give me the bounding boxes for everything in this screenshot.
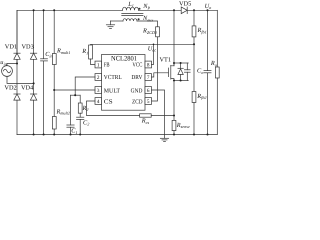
node rail Rmult — [53, 133, 55, 135]
node Rfb1 top — [193, 9, 195, 11]
wire aux right to RZCD1 — [137, 21, 158, 27]
svg-text:uin: uin — [0, 59, 6, 66]
svg-text:C2: C2 — [83, 119, 89, 126]
pin 1 box — [95, 61, 102, 68]
VT1 drain bar — [174, 62, 188, 64]
VT1 source bar — [174, 80, 188, 82]
diode VD4 — [30, 94, 36, 100]
pin 8 box — [145, 61, 152, 68]
diode VD2 — [14, 94, 20, 100]
svg-text:L1: L1 — [127, 1, 134, 8]
phase dot primary — [139, 8, 141, 10]
wire feedback Ucc rail — [91, 43, 195, 45]
resistor Rfb1 — [192, 10, 196, 44]
svg-text:CS: CS — [104, 98, 113, 105]
node top VD3 — [33, 9, 35, 11]
svg-text:Rfb1: Rfb1 — [197, 27, 207, 34]
pin 6 box — [145, 87, 152, 94]
ground GND pin — [160, 138, 168, 141]
svg-text:5: 5 — [147, 99, 150, 105]
svg-text:Rfb2: Rfb2 — [196, 93, 206, 100]
node fb divider — [193, 43, 195, 45]
body diode of VT1 — [178, 63, 183, 81]
wire CS pin4 — [87, 101, 140, 116]
resistor Rmult1 — [52, 54, 56, 65]
inductor L1 primary winding Np — [123, 7, 139, 10]
resistor RZCD1 — [156, 27, 160, 37]
svg-text:VT1: VT1 — [160, 56, 172, 63]
phase dot aux — [138, 18, 140, 20]
svg-text:Rmult1: Rmult1 — [56, 48, 70, 55]
ground aux — [106, 21, 114, 29]
wire top rail mid — [139, 9, 182, 11]
parasitic capacitor of VT1 — [184, 63, 190, 81]
wire GND pin6 — [152, 90, 165, 138]
wire MULT pin3 — [54, 89, 95, 91]
node rail C1 — [69, 133, 71, 135]
node rail Rfb2 — [193, 133, 195, 135]
node rail Rsense — [173, 133, 175, 135]
wire ZCD riser — [152, 37, 158, 101]
svg-text:VD3: VD3 — [22, 44, 34, 51]
resistor R2 — [78, 95, 82, 113]
wire Rcs to sense node — [151, 115, 174, 117]
node source bar left — [173, 79, 175, 81]
svg-text:VD4: VD4 — [21, 84, 34, 91]
svg-text:8: 8 — [147, 62, 150, 68]
wire top rail left — [17, 10, 123, 63]
capacitor Co — [204, 10, 211, 134]
resistor Rmult2 — [52, 117, 56, 130]
svg-text:ZCD: ZCD — [132, 98, 143, 105]
node drain top — [173, 9, 175, 11]
resistor Rfb2 — [192, 44, 196, 134]
pin 3 box — [95, 87, 102, 94]
svg-text:Rsense: Rsense — [176, 122, 190, 129]
pin 2 box — [95, 74, 102, 81]
capacitor Cin — [41, 59, 48, 61]
capacitor C1 — [67, 95, 74, 134]
op-amp U1 NCL2801 body — [102, 55, 146, 111]
node rail Cin — [43, 133, 45, 135]
resistor Rsense — [172, 120, 176, 130]
svg-text:R2: R2 — [82, 105, 89, 112]
node rail VD3 — [33, 133, 35, 135]
svg-text:R1: R1 — [81, 48, 88, 55]
node top Rmult — [53, 9, 55, 11]
node top Cin — [43, 9, 45, 11]
wire left bridge leg VD1/VD2 column — [16, 10, 18, 134]
svg-text:Cin: Cin — [45, 51, 52, 58]
svg-text:VCC: VCC — [132, 62, 142, 69]
resistor Rcs — [140, 114, 152, 117]
svg-text:2: 2 — [97, 75, 100, 81]
diode VD5 — [181, 7, 187, 14]
wire VCTRL pin2 — [75, 77, 95, 95]
wire bottom rail — [17, 134, 217, 136]
svg-text:GND: GND — [131, 87, 143, 94]
wire second bridge leg VD3/VD4 column — [33, 10, 35, 134]
svg-text:VD5: VD5 — [179, 1, 191, 8]
node vctrl junction — [74, 94, 76, 96]
capacitor C2 — [77, 113, 84, 134]
node Uo — [206, 9, 208, 11]
transistor VT1 MOSFET — [168, 63, 174, 81]
svg-text:VD1: VD1 — [5, 44, 17, 51]
svg-text:C1: C1 — [71, 128, 77, 135]
svg-text:VD2: VD2 — [4, 84, 16, 91]
svg-text:Rcs: Rcs — [141, 118, 150, 125]
svg-text:Naux: Naux — [142, 15, 153, 22]
node drain bar diode — [180, 62, 182, 64]
node drain bar left — [173, 62, 175, 64]
diode VD1 — [14, 53, 20, 59]
svg-text:VCTRL: VCTRL — [104, 74, 122, 81]
wire VCC pin8 riser to Ucc — [152, 44, 154, 64]
svg-text:4: 4 — [97, 99, 100, 105]
svg-text:Ucc: Ucc — [148, 45, 156, 52]
svg-text:6: 6 — [147, 88, 150, 94]
wire source column to sense — [173, 81, 175, 121]
node ucc riser — [153, 43, 155, 45]
svg-text:3: 3 — [97, 88, 100, 94]
svg-text:NP: NP — [142, 3, 150, 10]
node mult junction — [53, 89, 55, 91]
svg-text:FB: FB — [104, 62, 110, 69]
svg-text:1: 1 — [97, 62, 100, 68]
wire Rsense to rail — [173, 131, 175, 135]
transformer core — [122, 14, 143, 16]
svg-text:7: 7 — [147, 75, 150, 81]
aux winding Naux — [123, 19, 137, 21]
wire aux left to ground — [111, 20, 124, 22]
wire DRV pin7 to gate — [152, 73, 169, 77]
pin 7 box — [145, 74, 152, 81]
node rail C2 — [79, 133, 81, 135]
resistor Ro — [215, 10, 219, 134]
wire top rail right — [187, 9, 217, 11]
resistor R1 — [89, 45, 93, 59]
pin 5 box — [145, 98, 152, 105]
svg-text:RZCD1: RZCD1 — [142, 28, 157, 35]
svg-text:Uo: Uo — [205, 3, 212, 10]
svg-text:MULT: MULT — [104, 87, 120, 94]
wire Cin column — [43, 10, 45, 134]
svg-text:Rmult2: Rmult2 — [56, 108, 70, 115]
pin 4 box — [95, 98, 102, 105]
diode VD3 — [30, 53, 36, 59]
ac source u_in — [2, 64, 34, 84]
node cs sense — [173, 114, 175, 116]
svg-text:Ro: Ro — [210, 60, 217, 67]
wire R1 bottom to pin1 — [91, 59, 96, 65]
wire Rmult column — [53, 10, 55, 134]
node bridge mid left — [16, 62, 18, 64]
svg-text:Co: Co — [197, 68, 203, 75]
svg-text:DRV: DRV — [131, 74, 142, 81]
node bridge mid right — [33, 82, 35, 84]
node source bar diode — [180, 79, 182, 81]
wire drain column from top rail — [173, 10, 175, 66]
node bar VCTRL network — [71, 94, 81, 96]
node rail Co — [206, 133, 208, 135]
